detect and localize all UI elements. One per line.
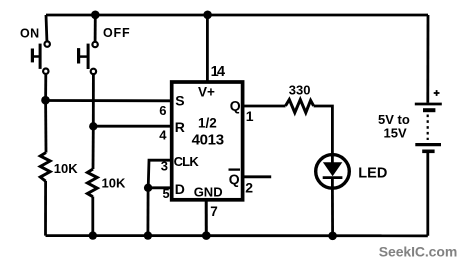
- wire CLK/D node to ground rail: [146, 188, 149, 236]
- wire battery negative to ground rail: [426, 151, 429, 236]
- wire top rail junction to OFF switch: [94, 15, 97, 41]
- svg-text:14: 14: [211, 64, 225, 80]
- wire node to pin 5 D input: [148, 186, 172, 189]
- svg-text:SeekIC.com: SeekIC.com: [379, 244, 457, 260]
- label ON: [20, 26, 40, 40]
- junction node S branch: [41, 96, 50, 105]
- svg-text:3: 3: [161, 158, 168, 173]
- IC U1 4013 dual flip-flop body: [172, 82, 243, 200]
- svg-text:1/2: 1/2: [198, 116, 217, 131]
- pushbutton switch OFF (normally open): [79, 42, 98, 74]
- label S input: [175, 93, 184, 109]
- label Q-bar output: [229, 170, 241, 187]
- battery B1 cell 2 positive plate: [415, 143, 441, 146]
- resistor R3 330: [286, 100, 314, 113]
- junction node R2 / ground rail: [89, 231, 97, 239]
- battery B1 dashed middle cells: [427, 115, 429, 141]
- wire resistor 330 to LED anode: [314, 106, 333, 155]
- junction node CLK-D / ground rail: [144, 231, 152, 239]
- svg-text:OFF: OFF: [103, 26, 130, 40]
- label 4013: [192, 131, 224, 148]
- svg-text:2: 2: [245, 180, 253, 196]
- wire node S to resistor R1: [44, 101, 47, 153]
- wire ground rail: [46, 234, 428, 237]
- wire top rail to battery positive: [426, 15, 429, 103]
- wire node R to pin 4 R input: [93, 125, 171, 128]
- label GND: [194, 185, 223, 200]
- junction node pin7 / ground rail: [202, 231, 211, 240]
- label D input: [175, 181, 185, 197]
- resistor R1 10K: [40, 153, 50, 182]
- svg-text:GND: GND: [194, 185, 223, 200]
- wire pin 2 Q-bar stub: [243, 175, 272, 178]
- pin number 2: [245, 180, 253, 196]
- wire node R to resistor R2: [92, 126, 95, 169]
- label 5V to 15V: [378, 112, 410, 141]
- wire OFF switch to node R: [92, 75, 95, 127]
- svg-text:LED: LED: [358, 165, 387, 181]
- battery B1 plus sign: [434, 90, 440, 96]
- label 10K (R2): [102, 175, 126, 190]
- pin number 14: [211, 64, 225, 80]
- svg-text:ON: ON: [20, 26, 40, 40]
- wire R1 to ground rail: [44, 181, 47, 236]
- wire top rail to ON switch: [45, 15, 49, 41]
- svg-text:4: 4: [159, 128, 167, 143]
- pin number 6: [159, 103, 166, 118]
- junction node LED / ground rail: [328, 232, 337, 241]
- svg-text:7: 7: [210, 204, 218, 219]
- pin number 3: [161, 158, 168, 173]
- svg-text:Q: Q: [229, 171, 240, 187]
- junction node: top rail / OFF switch: [91, 11, 100, 20]
- label LED: [358, 165, 387, 181]
- svg-text:5: 5: [163, 186, 170, 201]
- label 10K (R1): [54, 161, 78, 176]
- label V+: [198, 85, 215, 100]
- wire pin 7 GND to ground rail: [205, 201, 208, 236]
- wire top rail V+: [46, 14, 428, 17]
- label 330: [289, 82, 311, 97]
- label 1/2: [198, 116, 217, 131]
- label CLK: [174, 154, 200, 169]
- resistor R2 10K: [87, 169, 97, 197]
- label OFF: [103, 26, 130, 40]
- battery B1 cell 1 negative plate: [423, 108, 435, 112]
- junction node CLK/D tie: [144, 184, 152, 192]
- svg-text:10K: 10K: [54, 161, 78, 176]
- svg-text:S: S: [175, 93, 184, 109]
- wire R2 to ground rail: [91, 197, 94, 236]
- pin number 7: [210, 204, 218, 219]
- battery B1 cell 2 negative plate: [422, 150, 434, 154]
- svg-text:CLK: CLK: [174, 154, 200, 169]
- label R input: [175, 119, 185, 135]
- svg-text:R: R: [175, 119, 185, 135]
- battery B1 cell 1 positive plate: [415, 103, 442, 106]
- wire pin 14 V+: [206, 15, 209, 82]
- svg-text:4013: 4013: [192, 131, 224, 148]
- wire node S to pin 6 S input: [46, 99, 172, 102]
- svg-text:15V: 15V: [384, 126, 407, 141]
- svg-text:V+: V+: [198, 85, 215, 100]
- wire pin 3 CLK to ground branch: [148, 160, 172, 188]
- watermark SeekIC.com: [379, 244, 457, 260]
- junction node: top rail / pin 14: [203, 11, 212, 20]
- LED D1: [316, 155, 350, 189]
- svg-text:10K: 10K: [102, 175, 126, 190]
- label Q output: [230, 98, 241, 114]
- svg-text:Q: Q: [230, 98, 241, 114]
- svg-text:6: 6: [159, 103, 166, 118]
- pin number 1: [246, 108, 254, 124]
- svg-text:1: 1: [246, 108, 254, 124]
- svg-text:D: D: [175, 181, 185, 197]
- pushbutton switch ON (normally open): [32, 41, 50, 74]
- pin number 4: [159, 128, 167, 143]
- wire ON switch to node S: [44, 75, 47, 101]
- pin number 5: [163, 186, 170, 201]
- junction node R branch: [89, 122, 97, 130]
- wire LED cathode to ground rail: [331, 188, 334, 236]
- wire pin 1 Q to resistor 330: [243, 105, 286, 108]
- svg-text:330: 330: [289, 82, 311, 97]
